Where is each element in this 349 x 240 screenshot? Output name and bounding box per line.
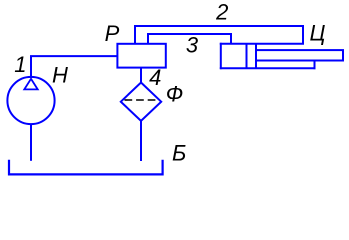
filter dashed element line (125, 99, 157, 101)
piston rod (256, 50, 343, 60)
wire 2 valve to cylinder (135, 26, 303, 44)
svg-text:3: 3 (186, 32, 199, 57)
cylinder body right edge (below rod) (314, 61, 316, 70)
wire pump to tank (30, 124, 32, 161)
pump H (circle) (7, 77, 54, 124)
cylinder body bottom edge (220, 67, 316, 69)
wire valve to filter (140, 68, 142, 83)
pump flow triangle (24, 79, 37, 90)
filter F (diamond) (121, 83, 161, 121)
cylinder Ts body top edge (220, 43, 304, 45)
svg-text:2: 2 (215, 0, 228, 25)
wire pump to valve (31, 56, 117, 78)
svg-text:Ц: Ц (310, 20, 326, 45)
valve P (rectangle) (117, 44, 165, 68)
piston left line (246, 44, 248, 68)
wire filter to tank (140, 121, 142, 161)
piston right line (255, 44, 257, 68)
cylinder body left edge (220, 43, 222, 69)
svg-text:Р: Р (105, 21, 120, 46)
wire 3 valve to cylinder (148, 34, 231, 44)
tank B (open rectangle) (9, 160, 163, 175)
svg-text:4: 4 (149, 65, 161, 90)
svg-text:1: 1 (14, 52, 26, 77)
svg-text:Ф: Ф (166, 82, 184, 107)
svg-text:Б: Б (172, 141, 186, 166)
svg-text:Н: Н (52, 63, 68, 88)
